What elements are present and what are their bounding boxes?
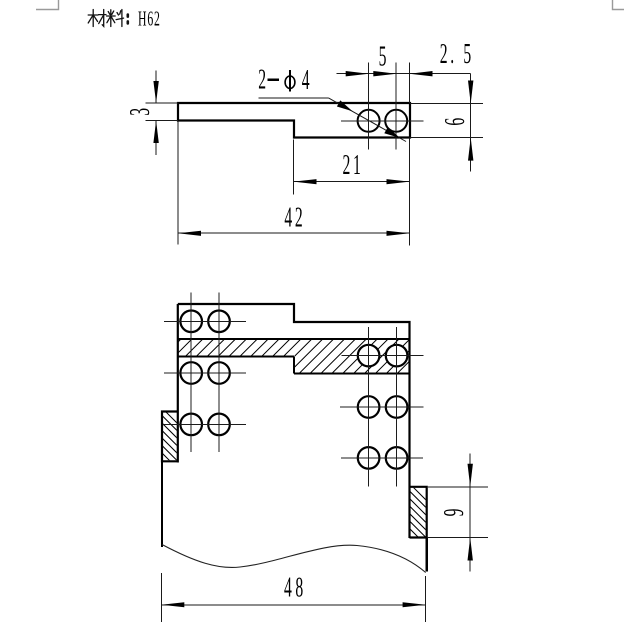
section band bottom edge right [294,373,410,375]
extension line right edge below part [409,138,411,246]
lower view outline [178,304,410,538]
dimension 9 line [469,453,471,571]
left horizontal center line row2 [164,372,246,374]
section band bottom edge left [178,356,294,358]
left column hole row3 a [180,414,202,436]
left column hole row1 a [180,311,202,333]
dim text 2-phi4: phi symbol [285,70,295,92]
center line vertical hole 2 [395,63,397,150]
arrow tip at hole2 centerline [373,71,396,76]
leader slant line [329,98,407,142]
dimension 21 line [294,181,410,183]
svg-text:48: 48 [284,572,307,604]
arrow 9 lower [468,538,473,561]
svg-text:.: . [450,38,454,70]
arrow 6 upper [468,81,473,104]
dim text 2-phi4: dash [268,78,280,81]
材: 才 part [99,10,106,27]
leader 2-phi4 underline [259,97,329,99]
arrow 21 right [387,179,410,184]
dimension 42 extension line left [177,122,179,245]
dimension 6 line [470,74,472,172]
left column hole row3 b [208,414,230,436]
section band step [293,357,295,374]
arrow 48 left [161,602,184,607]
border corner mark left [36,0,59,10]
svg-text:6: 6 [439,118,471,126]
dimension 48 extension right [425,576,427,622]
dimension 9 extension bottom [428,537,488,539]
border corner mark right [613,0,624,10]
arrow 21 left [294,179,317,184]
arrow tip at right edge [410,71,433,76]
svg-text:4: 4 [302,64,310,96]
料: 斗 part [116,10,124,27]
right column hole band b [386,345,408,367]
right column hole mid b [386,396,408,418]
right horizontal center line bottom [341,457,423,459]
arrow 9 upper [468,464,473,487]
svg-text:3: 3 [124,108,156,116]
fullwidth colon [127,15,130,24]
left horizontal center line row3 [164,423,247,425]
dimension 48 line [161,604,425,606]
section band top edge [178,338,410,340]
part outline (side view) [178,103,410,138]
center line vertical hole 1 [368,63,370,150]
dimension 21 extension line left [293,140,295,195]
left tab outline [162,412,178,462]
dimension 9 extension top [428,486,488,488]
料: 米 part [107,10,116,27]
left column hole row2 b [208,362,230,384]
dimension 6 extension lines [410,103,483,105]
left vertical center line a [190,293,192,453]
svg-text:42: 42 [284,202,305,234]
right vertical center line a [368,327,370,487]
right vertical center line b [396,327,398,487]
dimension 48 extension left [160,573,162,622]
arrow 6 lower [468,138,473,161]
leader arrowhead on hole 1 [337,100,353,111]
svg-text:5: 5 [463,38,471,70]
right column hole bottom a [358,447,380,469]
svg-text:5: 5 [379,41,387,73]
arrow 3 lower [153,121,158,144]
svg-text:2: 2 [440,38,448,70]
dimension 3 line upper [155,71,157,103]
right column hole band a [358,345,380,367]
left column hole row1 b [208,311,230,333]
svg-text:21: 21 [343,149,364,181]
hole 1 (left, 2-phi4) [358,110,380,132]
dimension 3 extension lines [146,102,179,104]
right column hole mid a [358,396,380,418]
hole 2 (right, 2-phi4) [385,110,407,132]
lower-right edge below tab [426,538,428,572]
arrow 42 right [387,231,410,236]
dimension 42 line [178,232,410,234]
left column hole row2 a [180,362,202,384]
svg-text:H62: H62 [138,7,161,30]
right horizontal center line band [342,355,424,357]
lower-left edge below tab [161,461,163,547]
center line horizontal through holes [341,120,424,122]
dimension 5 and 2.5 line [337,73,471,75]
svg-text:9: 9 [438,509,470,517]
extension line right edge above part [409,63,411,103]
right column hole bottom b [386,447,408,469]
left horizontal center line row1 [164,320,246,322]
title text 材料：H62 [88,10,128,27]
break wave line [162,545,426,573]
dimension 3 line lower [155,121,157,155]
arrow tip at hole1 centerline [346,71,369,76]
arrow 42 left [178,231,201,236]
left vertical center line b [218,293,220,453]
right tab outline [410,487,427,538]
svg-text:2: 2 [258,64,266,96]
arrow 48 right [403,602,426,607]
arrow 3 upper [153,81,158,103]
材: 木 radical [88,10,98,27]
right horizontal center line mid [340,406,424,408]
leader arrowhead on hole 2 [384,127,400,138]
